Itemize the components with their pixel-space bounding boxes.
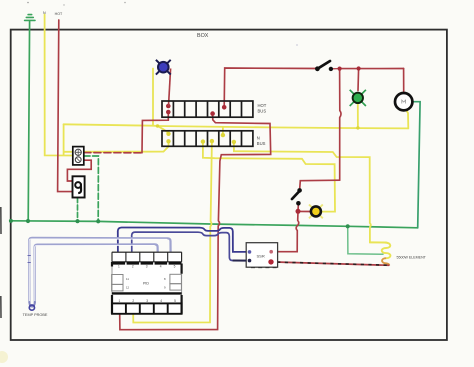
svg-text:11: 11: [126, 277, 129, 281]
svg-text:2: 2: [132, 265, 134, 269]
svg-text:5500W ELEMENT: 5500W ELEMENT: [397, 256, 427, 260]
svg-text:5: 5: [174, 265, 176, 269]
svg-text:3: 3: [146, 299, 148, 303]
svg-text:2: 2: [132, 299, 134, 303]
svg-text:1: 1: [119, 299, 121, 303]
svg-text:HOT: HOT: [55, 12, 63, 16]
svg-text:BUS: BUS: [258, 108, 267, 113]
svg-text:PID: PID: [143, 281, 149, 285]
svg-text:N: N: [43, 11, 46, 15]
svg-text:TEMP PROBE: TEMP PROBE: [23, 313, 48, 317]
svg-text:SSR: SSR: [257, 253, 265, 258]
svg-text:N: N: [257, 136, 260, 141]
svg-text:4: 4: [160, 299, 162, 303]
svg-text:5: 5: [174, 299, 176, 303]
svg-text:1: 1: [118, 265, 120, 269]
svg-text:12: 12: [126, 286, 130, 290]
svg-text:3: 3: [146, 265, 148, 269]
svg-text:BUS: BUS: [257, 141, 266, 146]
svg-text:HOT: HOT: [258, 103, 267, 108]
svg-text:4: 4: [160, 265, 162, 269]
svg-text:BOX: BOX: [197, 33, 209, 39]
